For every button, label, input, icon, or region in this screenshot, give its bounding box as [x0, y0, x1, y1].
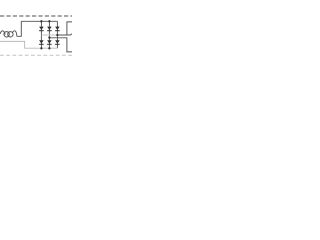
diode D4 (leg2 lower): [47, 40, 52, 45]
junction dot top rail / leg1: [40, 20, 42, 22]
junction dot top rail / leg2: [48, 20, 50, 22]
junction dot leg3 midpoint: [56, 34, 58, 36]
wire: leg 2 vertical: [48, 21, 50, 48]
diode D2 (leg1 lower): [39, 40, 44, 45]
diode D5 (leg3 upper): [55, 27, 60, 32]
junction dot bottom rail / leg1: [40, 47, 42, 49]
wire: coil right lead up to top rail: [17, 21, 22, 36]
enclosure boundary (bottom dashed line, light): [0, 54, 72, 56]
wire: bottom rail (light): [41, 47, 57, 49]
junction dot leg2 midpoint: [48, 36, 50, 38]
diode D3 (leg2 upper): [47, 27, 52, 32]
wire: top rail (positive bus): [21, 20, 57, 22]
wire: leg 3 vertical (from top-rail corner): [56, 21, 58, 48]
wire: output tap from leg2 midpoint, down at right, exit bottom right: [49, 38, 72, 52]
wire: top-right lead from right edge down to tap junction: [67, 22, 72, 35]
diode D6 (leg3 lower): [55, 40, 60, 45]
wire: light return line from left edge with step down to bottom rail: [0, 41, 41, 48]
wire: light phase midline between leg1 and leg3: [41, 34, 57, 36]
diode D1 (leg1 upper): [39, 27, 44, 32]
junction dot bottom rail / leg2: [48, 47, 50, 49]
inductor L1 (stator coil): [0, 31, 17, 37]
wire: leg 1 vertical: [40, 21, 42, 48]
wire: output tap from leg3 midpoint to right edge: [57, 34, 72, 35]
enclosure boundary (top dashed line): [0, 15, 72, 17]
